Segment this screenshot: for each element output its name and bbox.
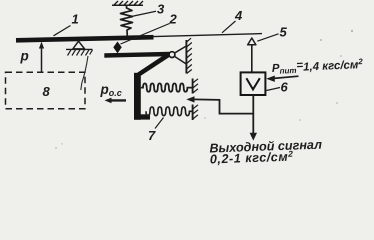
V symbol inside relay — [246, 78, 259, 89]
label 1 — [54, 12, 79, 36]
feedback pipe into bellows — [186, 96, 253, 113]
ceiling support hatching — [112, 1, 143, 5]
pivot circle of lever 2 — [169, 52, 175, 58]
pivot mount links to wall — [174, 46, 186, 64]
lever 1 (top bar) — [16, 37, 154, 40]
wall for pivot mount — [186, 38, 191, 73]
feedback direction arrow — [105, 98, 127, 104]
leader from fulcrum base to block 8 — [81, 56, 88, 90]
input force arrow p — [39, 42, 44, 73]
valve stem 5 (plunger triangle) — [248, 38, 256, 45]
svg-text:7: 7 — [148, 128, 156, 143]
svg-text:8: 8 — [43, 84, 51, 99]
fulcrum ground hatching — [66, 49, 93, 55]
supply pressure arrow — [266, 76, 298, 82]
spring 3 — [121, 5, 133, 36]
label 2 — [121, 12, 178, 45]
svg-text:4: 4 — [234, 8, 243, 23]
relay box 6 — [241, 72, 266, 95]
bellows 7 bottom coil row — [146, 107, 192, 116]
svg-text:p: p — [20, 49, 29, 64]
fulcrum pivot triangle — [73, 41, 85, 49]
rod 4 — [154, 34, 263, 37]
label 6 — [267, 80, 289, 95]
sensor block 8 (dashed box) — [6, 72, 86, 109]
svg-text:2: 2 — [169, 12, 178, 27]
stem line to relay — [251, 45, 253, 73]
svg-text:3: 3 — [157, 2, 165, 17]
label 3 — [133, 2, 166, 17]
svg-text:0,2-1 кгс/см2: 0,2-1 кгс/см2 — [210, 149, 294, 167]
flapper diamond 2 — [113, 42, 121, 54]
label 4 — [222, 8, 243, 33]
bellows 7 top coil row — [141, 83, 193, 91]
svg-text:6: 6 — [281, 80, 289, 95]
scan speckles — [55, 30, 353, 149]
output signal text — [209, 138, 322, 167]
label 7 — [148, 118, 164, 144]
label 5 — [257, 25, 287, 42]
svg-text:5: 5 — [280, 25, 288, 40]
bellows wall upper segment — [193, 79, 198, 94]
output signal line with arrow — [250, 95, 257, 141]
svg-text:1: 1 — [72, 12, 79, 27]
lever 2 (Z-shaped feedback lever) — [104, 52, 170, 120]
bellows wall lower segment — [193, 105, 198, 121]
